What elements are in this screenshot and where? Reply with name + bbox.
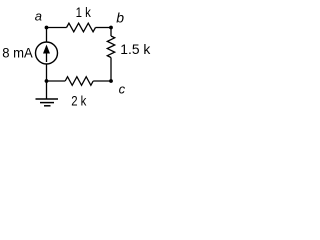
wire junction to ground — [46, 81, 48, 99]
resistor R1 1 k (top, between a and b) — [67, 23, 96, 32]
svg-text:c: c — [119, 82, 126, 97]
svg-text:2 k: 2 k — [71, 92, 87, 108]
wire 1.5k resistor to c — [110, 58, 112, 82]
wire 1k resistor to b — [96, 27, 112, 29]
wire 2k resistor to junction — [47, 80, 66, 82]
svg-text:1.5 k: 1.5 k — [120, 41, 151, 57]
wire a to 1k resistor — [47, 27, 67, 29]
wire b to 1.5k resistor — [110, 28, 112, 37]
junction (bottom left) — [45, 79, 49, 83]
svg-text:b: b — [116, 10, 124, 26]
resistor R2 1.5 k (right, between b and c) — [107, 36, 114, 58]
ground — [36, 99, 59, 106]
node a — [45, 26, 49, 30]
node b — [109, 26, 113, 30]
wire a to current source — [46, 28, 48, 43]
svg-text:a: a — [35, 9, 42, 24]
current source I1 8 mA — [36, 42, 58, 64]
node c — [109, 79, 113, 83]
svg-text:1 k: 1 k — [76, 4, 92, 20]
svg-text:8 mA: 8 mA — [2, 45, 33, 61]
wire c to 2k resistor — [93, 80, 111, 82]
wire current source to junction — [46, 64, 48, 81]
resistor R3 2 k (bottom, between junction and c) — [65, 77, 93, 86]
